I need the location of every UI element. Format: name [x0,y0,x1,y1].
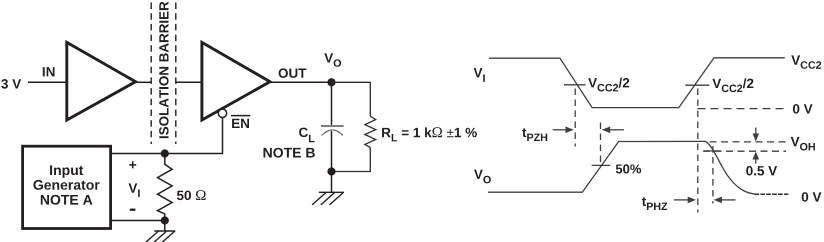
VI rising-edge crossing tick [685,84,709,86]
waveform VO dotted tail [755,193,789,195]
capacitor NOTE B label [264,148,315,158]
arrow down to VOH line [753,128,760,142]
node plus label [129,161,136,168]
dashed vertical line at VI rise crossing [697,89,699,213]
dashed VOH minus 0.5V level line [703,150,786,152]
node tPZH label [522,128,547,141]
input generator box [23,146,111,228]
dashed vertical line at VI fall crossing [574,89,576,147]
wire generator plus to VI node [111,153,165,155]
node OUT label [279,68,307,78]
capacitor CL label [299,128,314,143]
isolation barrier right dashed line [175,3,177,145]
wire bottom node to ground [164,221,166,232]
op-amp buffer A1 [67,42,136,120]
tPHZ left arrow pointing right [674,197,696,204]
isolation barrier left dashed line [150,3,152,145]
dashed vertical line at VO VOH-0.5 crossing [712,146,714,204]
node 50% label [616,164,641,173]
enable bubble on buffer A2 [218,109,226,117]
waveform VO falling decay curve [706,141,755,194]
node VCC2 level label [791,55,821,68]
wire generator minus to bottom node [111,220,165,222]
node CL-RL ground junction dot [327,167,335,175]
tPZH right arrow pointing left [602,127,624,134]
wire capacitor CL to ground node [331,131,333,172]
node 0V label top [793,104,813,114]
waveform VI trace [489,58,785,108]
node 3V source label [1,79,21,89]
node VCC2/2 label rising [712,78,753,92]
resistor 50 ohm value label [177,190,206,200]
node minus label [130,209,136,211]
wire buffer A1 output to isolation barrier [136,81,151,83]
node VOH label [791,137,815,151]
wire buffer A2 output [270,81,332,83]
node VI bottom junction dot [161,216,169,224]
wire VO node to RL branch [332,82,371,116]
waveform VO trace [488,141,706,192]
VO 50 percent crossing tick [592,164,611,166]
node VI label [129,183,140,197]
node VI waveform label [474,68,485,82]
node IN label [43,67,55,76]
node tPHZ label [642,197,667,210]
node VO label [324,53,341,67]
VO VOH-0.5 crossing tick [704,150,721,152]
capacitor CL [321,126,344,135]
node VCC2/2 label falling [588,78,629,92]
isolation barrier label [159,2,169,139]
wire RL bottom to VO ground node [332,148,371,172]
wire isolation barrier to buffer A2 [176,81,202,83]
dashed VOH level line [710,141,787,143]
tPHZ right arrow pointing left [714,197,736,204]
dashed 0V reference line VI [698,108,785,110]
wire EN bubble to VI node [168,118,223,154]
node VO junction dot [327,78,335,86]
node VO waveform label [474,170,491,184]
wire junction to ground [331,172,333,193]
wire VO node to capacitor CL [331,82,333,125]
op-amp buffer A2 [202,42,270,120]
resistor RL value label [382,127,477,141]
input generator text [33,165,99,204]
arrow up to VOH-0.5 line [753,152,760,164]
VI falling-edge crossing tick [564,84,586,86]
dashed vertical line at VO 50 percent crossing [600,123,602,166]
node 0.5V label [746,166,777,176]
resistor 50 ohm [158,154,173,221]
node EN label [231,116,251,128]
node VI top junction dot [161,149,169,157]
tPZH left arrow pointing right [553,127,574,134]
node 0V label bottom [802,192,822,202]
ground input side [144,231,175,242]
ground output side [312,192,344,205]
wire input to buffer A1 [28,81,67,83]
resistor RL [365,116,376,147]
